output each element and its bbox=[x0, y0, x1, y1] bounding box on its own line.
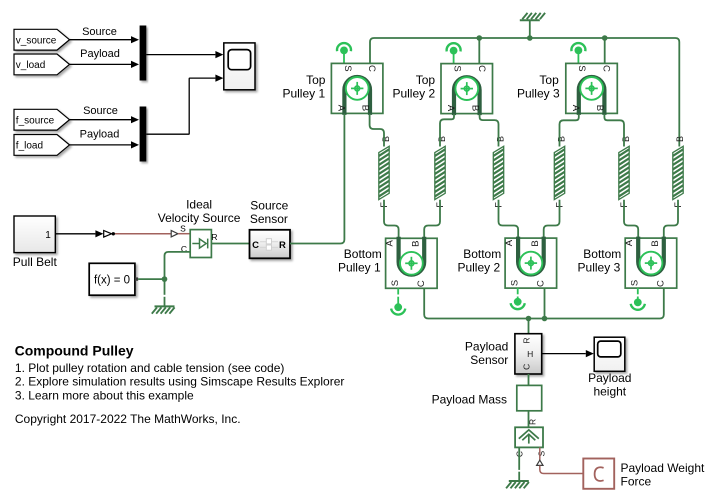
svg-text:Ideal: Ideal bbox=[186, 197, 212, 211]
label Payload (bottom) bbox=[80, 129, 120, 141]
svg-text:S: S bbox=[536, 451, 546, 457]
rotational clamp icon below Bottom Pulley 3 bbox=[631, 288, 645, 310]
label Source (sensor line 1) bbox=[250, 199, 288, 213]
svg-text:C: C bbox=[656, 280, 667, 287]
wire f_load to mux M2 bbox=[70, 141, 140, 148]
label Source (bottom) bbox=[83, 105, 118, 117]
svg-text:B: B bbox=[557, 136, 567, 142]
port label F of rope 4 bbox=[555, 202, 565, 208]
port label F of rope 3 bbox=[494, 202, 504, 208]
svg-text:C: C bbox=[601, 65, 612, 72]
svg-text:B: B bbox=[381, 136, 391, 142]
svg-text:height: height bbox=[593, 385, 626, 399]
block Top Pulley 3 bbox=[566, 63, 618, 115]
svg-text:Payload: Payload bbox=[588, 371, 631, 385]
svg-text:C: C bbox=[416, 280, 427, 287]
rope element 5 (hatched belt) bbox=[617, 139, 631, 211]
svg-text:Source: Source bbox=[82, 26, 117, 38]
label Top (pulley 1) bbox=[306, 73, 326, 87]
junction bus at TP2 C bbox=[477, 35, 483, 41]
rotational clamp icon above Top Pulley 2 bbox=[447, 43, 461, 63]
rope element 6 (hatched belt) bbox=[671, 139, 685, 211]
wire Payload Mass to force source R bbox=[528, 411, 530, 428]
svg-text:B: B bbox=[621, 136, 631, 142]
title Compound Pulley bbox=[15, 342, 134, 358]
svg-text:A: A bbox=[336, 105, 347, 112]
rotational clamp icon above Top Pulley 3 bbox=[571, 43, 585, 63]
svg-text:f_source: f_source bbox=[16, 115, 55, 126]
svg-text:Bottom: Bottom bbox=[583, 247, 621, 261]
svg-text:Force: Force bbox=[621, 474, 652, 488]
svg-text:Pulley 1: Pulley 1 bbox=[338, 261, 381, 275]
wire node down to ground (upper) bbox=[164, 279, 166, 295]
port label B of rope 1 bbox=[381, 136, 391, 142]
svg-text:C: C bbox=[535, 280, 546, 287]
label Source (top) bbox=[82, 26, 117, 38]
svg-text:f(x) = 0: f(x) = 0 bbox=[94, 274, 130, 286]
block Payload Mass bbox=[517, 385, 542, 410]
port label F of rope 1 bbox=[379, 202, 389, 208]
port label F of rope 5 bbox=[619, 202, 629, 208]
ground (top anchor reference) bbox=[520, 13, 545, 20]
svg-text:B: B bbox=[594, 105, 605, 111]
wire f(x)=0 to node bbox=[138, 278, 164, 280]
op Ideal Velocity Source block U1 bbox=[190, 230, 211, 258]
wire v_source to mux M1 bbox=[70, 36, 140, 43]
block Bottom Pulley 1 bbox=[384, 237, 437, 288]
Simulink-PS converter glyph bbox=[104, 231, 115, 238]
physical signal stub to S port bbox=[178, 233, 190, 235]
port label C of velocity source bbox=[181, 244, 187, 254]
svg-text:v_source: v_source bbox=[16, 35, 57, 46]
copyright bbox=[15, 412, 241, 426]
svg-text:2. Explore simulation results: 2. Explore simulation results using Sims… bbox=[15, 375, 344, 389]
rotational clamp icon above Top Pulley 1 bbox=[337, 43, 351, 63]
label Bottom (pulley 3) bbox=[583, 247, 621, 261]
rotational clamp icon below Bottom Pulley 2 bbox=[511, 288, 525, 309]
wire rope 2 to Top Pulley 2 A bbox=[440, 114, 454, 147]
wire bus ground stem bbox=[529, 21, 531, 39]
svg-text:Compound Pulley: Compound Pulley bbox=[15, 342, 134, 358]
svg-text:S: S bbox=[576, 65, 587, 71]
wire mux M2 to scope bbox=[146, 75, 223, 135]
svg-text:S: S bbox=[510, 280, 521, 286]
svg-text:Pulley 1: Pulley 1 bbox=[282, 87, 325, 101]
label Sensor (sensor line 2) bbox=[250, 212, 288, 226]
junction node at solver ground bbox=[162, 276, 168, 282]
svg-text:A: A bbox=[504, 239, 515, 246]
port label F of rope 6 bbox=[673, 202, 683, 208]
svg-text:C: C bbox=[522, 364, 532, 370]
wire Payload Sensor H to scope bbox=[542, 350, 594, 357]
svg-text:Payload: Payload bbox=[80, 129, 120, 141]
svg-text:B: B bbox=[650, 240, 661, 246]
scope block (velocities) bbox=[224, 43, 255, 90]
wire TP3 C to bus bbox=[604, 38, 606, 63]
label Sensor (sensor line 2) bbox=[470, 353, 508, 367]
rope element 1 (hatched belt) bbox=[377, 139, 391, 211]
label Bottom (pulley 1) bbox=[344, 247, 382, 261]
port label B of rope 6 bbox=[675, 136, 685, 142]
svg-text:Bottom: Bottom bbox=[463, 247, 501, 261]
wire Top Pulley 1 B to rope 1 bbox=[370, 114, 384, 147]
mux M2 bbox=[140, 107, 147, 162]
svg-text:Top: Top bbox=[306, 73, 326, 87]
label Pulley 2 (top) bbox=[392, 87, 435, 101]
wire node down to ground (lower) bbox=[164, 297, 166, 306]
physical signal wire force source S upper stub bbox=[539, 447, 541, 460]
label Top (pulley 3) bbox=[539, 73, 559, 87]
svg-text:S: S bbox=[390, 280, 401, 286]
svg-text:Pulley 2: Pulley 2 bbox=[392, 87, 435, 101]
input tag f_source bbox=[14, 109, 70, 130]
port label R of velocity source bbox=[211, 232, 217, 242]
wire force source C to ground (upper) bbox=[518, 447, 520, 470]
port label B of rope 3 bbox=[496, 136, 506, 142]
svg-text:Pulley 2: Pulley 2 bbox=[457, 261, 500, 275]
wire mux M1 to scope bbox=[146, 51, 223, 58]
rope element 2 (hatched belt) bbox=[433, 139, 447, 211]
label Pulley 1 (bottom) bbox=[338, 261, 381, 275]
svg-text:Payload: Payload bbox=[80, 48, 120, 60]
list item 3 bbox=[15, 388, 194, 402]
input tag v_source bbox=[14, 29, 70, 50]
wire TP2 C to bus bbox=[478, 38, 480, 64]
label Payload height (line 1) bbox=[588, 371, 631, 385]
svg-text:Sensor: Sensor bbox=[470, 353, 508, 367]
ground (payload reference) bbox=[506, 481, 529, 488]
wire rope 1 to Bottom Pulley 1 A bbox=[384, 200, 399, 239]
svg-text:S: S bbox=[451, 65, 462, 71]
block Payload Weight Force (constant C) bbox=[583, 459, 614, 489]
svg-text:B: B bbox=[675, 136, 685, 142]
block force source (payload weight) bbox=[515, 427, 543, 447]
svg-text:1. Plot pulley rotation and ca: 1. Plot pulley rotation and cable tensio… bbox=[15, 361, 285, 375]
svg-text:f_load: f_load bbox=[16, 141, 43, 152]
svg-text:1: 1 bbox=[45, 230, 51, 241]
svg-text:Velocity Source: Velocity Source bbox=[158, 211, 241, 225]
rotational clamp icon below Bottom Pulley 1 bbox=[391, 288, 405, 314]
svg-text:S: S bbox=[630, 280, 641, 286]
label Pulley 3 (bottom) bbox=[578, 261, 621, 275]
port label S of velocity source bbox=[180, 224, 186, 234]
label Pulley 3 (top) bbox=[517, 87, 560, 101]
svg-text:Source: Source bbox=[83, 105, 118, 117]
wire BP2 C to bottom bus bbox=[544, 288, 546, 318]
port label F of rope 2 bbox=[435, 202, 445, 208]
junction bottom bus at payload sensor bbox=[526, 316, 532, 322]
wire rope 5 to Bottom Pulley 3 A bbox=[624, 200, 638, 238]
physical signal line converter to S port bbox=[115, 233, 171, 235]
label Payload height (line 2) bbox=[593, 385, 626, 399]
wire bus to Payload Sensor R bbox=[528, 319, 530, 334]
port label B of rope 2 bbox=[437, 136, 447, 142]
svg-text:A: A bbox=[570, 105, 581, 112]
rope element 4 (hatched belt) bbox=[553, 139, 567, 211]
junction bus at TP3 C bbox=[602, 35, 608, 41]
wire rope 6 to Bottom Pulley 3 B bbox=[664, 200, 678, 238]
svg-text:C: C bbox=[366, 65, 377, 72]
wire velocity source R to Source Sensor bbox=[211, 243, 249, 245]
wire f_source to mux M2 bbox=[70, 116, 140, 123]
svg-text:A: A bbox=[445, 105, 456, 112]
svg-text:C: C bbox=[476, 65, 487, 72]
junction bottom bus at BP2 C bbox=[542, 316, 548, 322]
svg-text:B: B bbox=[530, 240, 541, 246]
label Payload (top) bbox=[80, 48, 120, 60]
label Top (pulley 2) bbox=[416, 73, 436, 87]
port label B of rope 4 bbox=[557, 136, 567, 142]
svg-text:Pull Belt: Pull Belt bbox=[13, 255, 58, 269]
svg-text:B: B bbox=[469, 105, 480, 111]
block Bottom Pulley 2 bbox=[504, 237, 557, 289]
svg-text:Pulley 3: Pulley 3 bbox=[517, 87, 560, 101]
label Pulley 2 (bottom) bbox=[457, 261, 500, 275]
label Pull Belt bbox=[13, 255, 58, 269]
port label R of force source bbox=[527, 419, 537, 425]
label Ideal (line 1) bbox=[186, 197, 212, 211]
wire Top Pulley 3 B to rope 5 bbox=[604, 114, 624, 147]
block Top Pulley 2 bbox=[441, 64, 493, 116]
svg-text:R: R bbox=[522, 338, 532, 344]
svg-text:C: C bbox=[252, 240, 259, 251]
svg-text:R: R bbox=[527, 419, 537, 425]
wire node up to velocity source C bbox=[165, 252, 191, 279]
wire Payload Sensor C to Payload Mass bbox=[528, 374, 530, 385]
svg-text:Payload: Payload bbox=[465, 340, 508, 354]
wire force source C to ground (lower) bbox=[518, 472, 520, 481]
svg-text:R: R bbox=[211, 232, 217, 242]
svg-text:Source: Source bbox=[250, 199, 288, 213]
svg-text:Payload Weight: Payload Weight bbox=[621, 461, 705, 475]
block Source Sensor bbox=[250, 230, 291, 258]
svg-text:Copyright 2017-2022 The MathWo: Copyright 2017-2022 The MathWorks, Inc. bbox=[15, 412, 241, 426]
label Payload Weight Force (line 1) bbox=[621, 461, 705, 475]
junction bus at ground stem bbox=[527, 35, 533, 41]
input tag f_load bbox=[14, 135, 70, 156]
svg-text:S: S bbox=[342, 65, 353, 71]
label Payload Mass bbox=[432, 393, 507, 407]
svg-text:B: B bbox=[360, 105, 371, 111]
svg-text:Bottom: Bottom bbox=[344, 247, 382, 261]
wire top bus (top pulley C ports to anchor) bbox=[370, 38, 679, 147]
label Pulley 1 (top) bbox=[282, 87, 325, 101]
ground (solver reference) bbox=[152, 306, 175, 313]
wire rope 3 to Bottom Pulley 2 A bbox=[499, 200, 519, 238]
port label C of force source bbox=[514, 451, 524, 457]
svg-text:Payload Mass: Payload Mass bbox=[432, 393, 507, 407]
svg-text:R: R bbox=[279, 240, 286, 251]
label Payload (sensor line 1) bbox=[465, 340, 508, 354]
svg-text:A: A bbox=[384, 239, 395, 246]
label Velocity Source (line 2) bbox=[158, 211, 241, 225]
list item 1 bbox=[15, 361, 285, 375]
mux M1 bbox=[140, 26, 147, 81]
port label B of rope 5 bbox=[621, 136, 631, 142]
svg-text:B: B bbox=[437, 136, 447, 142]
svg-text:S: S bbox=[180, 224, 186, 234]
svg-text:B: B bbox=[411, 241, 422, 247]
wire bottom bus (pulley C ports to payload) bbox=[424, 288, 664, 318]
physical signal wire to Payload Weight Force bbox=[540, 466, 583, 474]
svg-text:Top: Top bbox=[539, 73, 559, 87]
svg-text:Sensor: Sensor bbox=[250, 212, 288, 226]
block Top Pulley 1 bbox=[331, 63, 383, 115]
svg-text:Pulley 3: Pulley 3 bbox=[578, 261, 621, 275]
subsystem block Pull Belt bbox=[14, 216, 55, 253]
wire v_load to mux M1 bbox=[70, 61, 140, 68]
list item 2 bbox=[15, 375, 344, 389]
wire rope 4 to Top Pulley 3 A bbox=[560, 114, 579, 147]
label Payload Weight Force (line 2) bbox=[621, 474, 652, 488]
input tag v_load bbox=[14, 54, 70, 75]
PS port triangle at force source S bbox=[537, 460, 543, 465]
svg-text:H: H bbox=[527, 349, 533, 359]
label Bottom (pulley 2) bbox=[463, 247, 501, 261]
svg-text:v_load: v_load bbox=[16, 60, 45, 71]
block Payload Sensor bbox=[515, 334, 542, 374]
block solver configuration f(x)=0 bbox=[89, 263, 138, 295]
port label S of force source bbox=[536, 451, 546, 457]
svg-text:B: B bbox=[496, 136, 506, 142]
PS port triangle at S input bbox=[171, 231, 178, 237]
scope block Payload height bbox=[594, 337, 625, 371]
wire rope 4 to Bottom Pulley 2 B bbox=[544, 200, 560, 238]
svg-text:3. Learn more about this examp: 3. Learn more about this example bbox=[15, 388, 194, 402]
rope element 3 (hatched belt) bbox=[492, 139, 506, 211]
svg-text:Top: Top bbox=[416, 73, 436, 87]
wire Top Pulley 2 B to rope 3 bbox=[480, 114, 499, 147]
svg-text:A: A bbox=[624, 239, 635, 246]
wire sensor R to Top Pulley 1 A bbox=[290, 114, 344, 244]
wire rope 2 to Bottom Pulley 1 B bbox=[424, 200, 440, 239]
block Bottom Pulley 3 bbox=[624, 237, 677, 289]
wire Pull Belt to converter bbox=[55, 230, 103, 237]
